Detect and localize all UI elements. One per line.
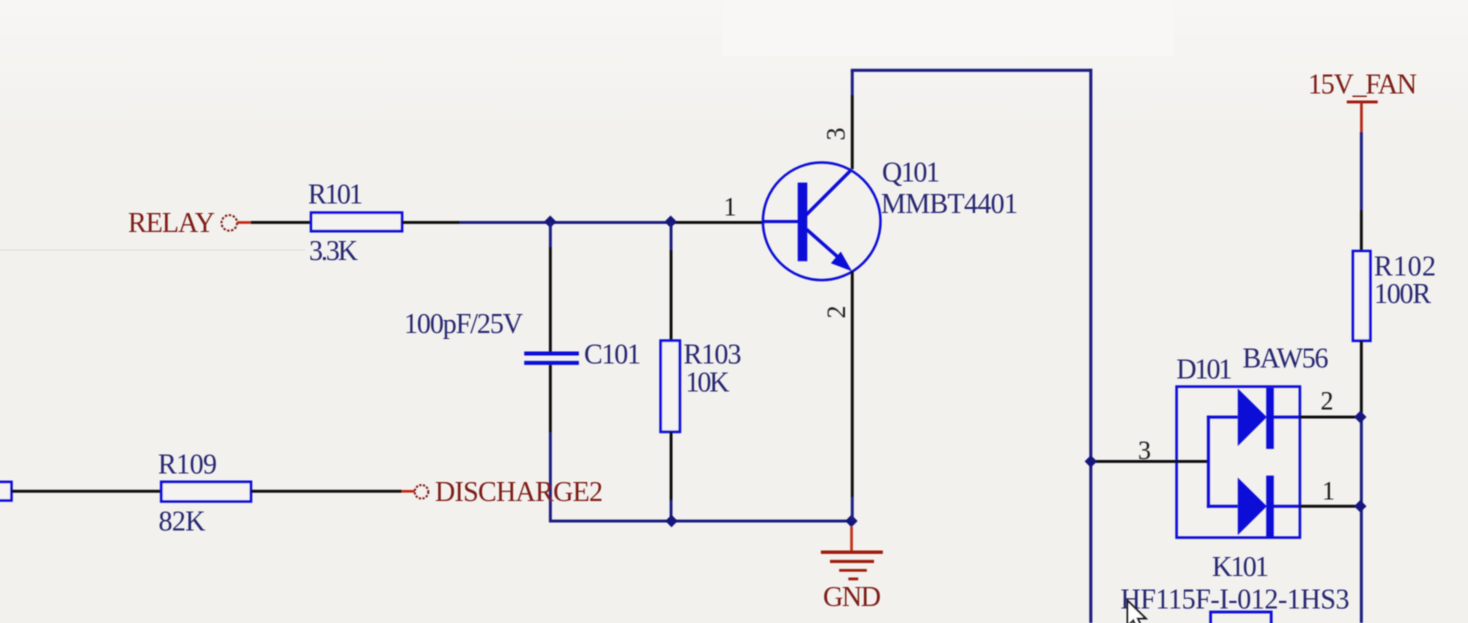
wire Q101 collector stub (navy)	[851, 70, 854, 95]
wire R109 to DISCHARGE2	[251, 490, 402, 493]
capacitor C101 bottom plate	[524, 361, 579, 365]
diode D101 top cathode line to box edge	[1273, 416, 1300, 419]
wire RELAY to R101	[251, 221, 311, 224]
diode D101 pin 3 wire (black)	[1091, 460, 1209, 463]
wire emitter to bottom junction (navy)	[851, 497, 854, 521]
transistor Q101 emitter arrowhead	[831, 252, 852, 272]
wire left resistor to R109	[11, 490, 161, 493]
svg-text:D101: D101	[1176, 354, 1232, 385]
wire top rail to right (navy)	[851, 69, 1092, 72]
junction bottom rail / GND	[845, 515, 857, 527]
svg-text:15V_FAN: 15V_FAN	[1308, 70, 1417, 101]
wire Q101 emitter pin vertical (black)	[851, 271, 854, 497]
transistor Q101 emitter diagonal	[807, 229, 842, 259]
svg-text:K101: K101	[1212, 552, 1269, 583]
wire C101 top pin (black)	[549, 247, 552, 352]
wire R102 top pin (black)	[1360, 210, 1363, 251]
wire R103 to bottom rail (navy)	[670, 500, 673, 522]
wire red stub at RELAY port	[238, 221, 251, 224]
svg-text:C101: C101	[584, 340, 641, 371]
svg-text:82K: 82K	[159, 507, 206, 538]
wire red stub at DISCHARGE2 port	[402, 490, 415, 493]
svg-text:3: 3	[1138, 436, 1151, 465]
capacitor C101 top plate	[524, 352, 579, 356]
svg-text:R101: R101	[308, 180, 363, 211]
diode D101 bottom cathode line to box edge	[1273, 505, 1300, 508]
svg-text:3: 3	[822, 128, 851, 141]
diode D101 internal anode vertical	[1207, 416, 1210, 508]
diode D101 bottom triangle	[1238, 478, 1267, 535]
svg-text:R103: R103	[684, 340, 742, 371]
wire R102 bottom pin (black)	[1360, 341, 1363, 412]
ground bar 3	[839, 569, 867, 572]
junction pin 2 rail	[1354, 411, 1366, 423]
wire Q101 collector pin vertical (black)	[851, 95, 854, 169]
resistor (partial, left edge) body	[0, 482, 11, 500]
resistor R1 body R101	[311, 213, 402, 231]
wire node B down to R103 (navy stub)	[670, 222, 673, 250]
transistor Q101 base bar	[798, 183, 808, 262]
svg-text:100pF/25V: 100pF/25V	[404, 309, 523, 340]
junction bottom rail / R103	[665, 515, 677, 527]
svg-text:MMBT4401: MMBT4401	[881, 189, 1018, 220]
ground bar 2	[830, 560, 874, 563]
svg-text:Q101: Q101	[882, 158, 940, 189]
resistor R109 body	[161, 482, 251, 502]
svg-text:10K: 10K	[686, 368, 730, 399]
wire 15V stem navy	[1360, 132, 1363, 210]
wire node A navy segment	[460, 221, 671, 224]
ground bar 1	[821, 551, 883, 554]
wire R101 to node A (black pin part)	[402, 221, 460, 224]
svg-text:GND: GND	[823, 582, 881, 613]
diode D101 top anode line	[1207, 416, 1238, 419]
resistor R102 body	[1353, 251, 1370, 341]
svg-text:100R: 100R	[1374, 279, 1431, 310]
svg-text:RELAY: RELAY	[128, 208, 215, 239]
mouse cursor	[1128, 601, 1146, 623]
diode D101 top cathode bar	[1266, 388, 1274, 449]
svg-text:BAW56: BAW56	[1243, 344, 1329, 375]
wire right-down rail x=1090 (navy)	[1089, 69, 1092, 623]
ground bar 4	[848, 578, 858, 581]
svg-text:2: 2	[822, 306, 851, 319]
diode D101 bottom cathode bar	[1266, 476, 1274, 538]
diode D101 pin 2 wire (black)	[1300, 416, 1361, 419]
svg-text:DISCHARGE2: DISCHARGE2	[435, 477, 603, 508]
wire R103 top pin (black)	[670, 250, 673, 341]
junction pin 3 rail	[1085, 455, 1097, 467]
wire C101 bottom pin (black)	[549, 365, 552, 433]
transistor Q101 collector diagonal	[806, 170, 851, 215]
wire C101 to bottom rail (navy)	[549, 433, 552, 523]
diode D101 box	[1177, 387, 1300, 538]
wire R103 bottom pin (black)	[670, 432, 673, 500]
wire node A down to C101 (navy stub)	[549, 222, 552, 247]
svg-text:2: 2	[1321, 387, 1334, 416]
diode D101 top triangle	[1238, 389, 1267, 447]
junction pin 1 rail	[1354, 500, 1366, 512]
resistor R103 body	[661, 341, 680, 432]
svg-text:R109: R109	[158, 450, 217, 481]
svg-text:1: 1	[724, 193, 737, 222]
svg-text:1: 1	[1322, 477, 1335, 506]
power port 15V_FAN red stem	[1360, 103, 1363, 132]
port RELAY terminal circle	[222, 215, 238, 231]
transistor Q101 base lead	[763, 220, 798, 223]
wire bottom rail	[549, 520, 852, 523]
diode D101 pin 1 wire (black)	[1300, 505, 1361, 508]
wire node B to Q101 base (black)	[671, 221, 764, 224]
svg-text:3.3K: 3.3K	[309, 236, 358, 267]
junction node B	[665, 216, 677, 228]
transistor Q101 circle	[763, 163, 881, 281]
relay K101 coil box (partial at bottom)	[1211, 612, 1272, 623]
wire right rail down (navy)	[1360, 412, 1363, 623]
svg-text:R102: R102	[1374, 252, 1436, 283]
junction node A	[544, 216, 556, 228]
ground stem	[850, 527, 853, 552]
diode D101 bottom anode line	[1207, 505, 1238, 508]
power port 15V_FAN bar	[1347, 101, 1378, 104]
port DISCHARGE2 terminal circle	[415, 485, 429, 499]
